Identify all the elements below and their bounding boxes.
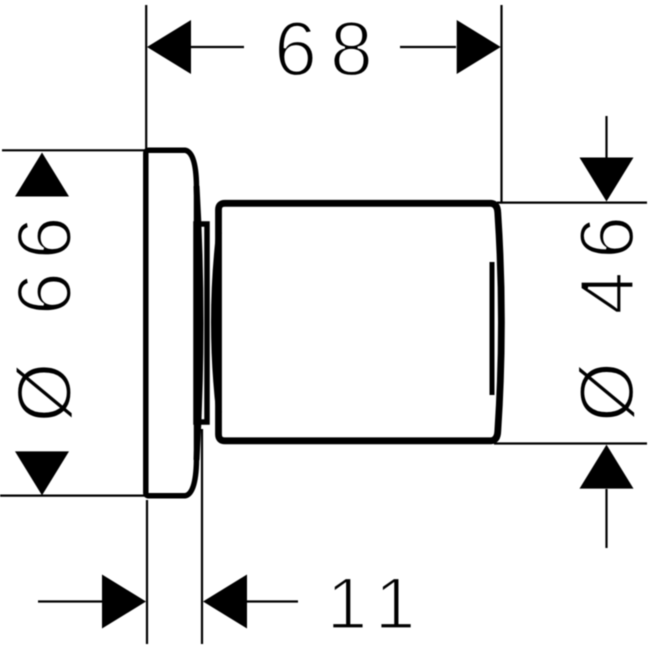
svg-text:11: 11 [327,564,429,645]
svg-text:Ø 46: Ø 46 [565,203,650,422]
svg-text:Ø 66: Ø 66 [2,204,88,423]
svg-text:68: 68 [274,7,386,93]
